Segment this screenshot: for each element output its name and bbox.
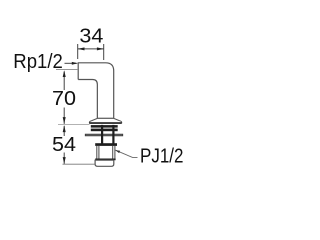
leader Rp1/2 arrow <box>72 62 78 65</box>
svg-text:34: 34 <box>79 26 103 48</box>
svg-text:54: 54 <box>52 134 76 156</box>
dimension 54 bottom extension line <box>63 163 95 165</box>
dimension 70 top extension line <box>56 68 78 70</box>
dimension 34 line <box>78 48 104 50</box>
svg-text:PJ1/2: PJ1/2 <box>140 146 184 168</box>
svg-text:Rp1/2: Rp1/2 <box>13 51 63 73</box>
washer bar B <box>91 129 118 132</box>
dimension 34 extension lines <box>78 44 104 60</box>
threaded shank upper sides <box>102 125 113 144</box>
dimension 54 line <box>63 126 65 164</box>
svg-text:70: 70 <box>52 88 76 110</box>
pipe end cap <box>95 159 116 166</box>
leader Rp1/2 <box>65 62 77 64</box>
dimension 54 arrows <box>63 125 66 164</box>
dimension 70 arrows <box>63 70 66 124</box>
thin plate C <box>85 134 122 136</box>
shank lower section <box>97 146 115 159</box>
dimension 70 line <box>63 72 65 124</box>
dimension 34 arrows <box>78 47 104 50</box>
locknut bar D <box>95 143 117 146</box>
leader PJ1/2 arrow <box>115 150 120 153</box>
elbow outline <box>78 63 114 119</box>
washer bar A <box>91 125 118 128</box>
shared extension line (70/54) <box>58 124 90 126</box>
escutcheon flange <box>89 118 121 123</box>
leader PJ1/2 <box>115 150 137 157</box>
